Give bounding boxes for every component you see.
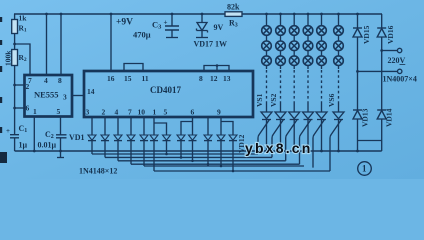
wire gate lead VS3 [286, 120, 298, 161]
wire gate lead VS1 [258, 120, 270, 155]
wire VD3 cathode drop to bus [117, 141, 119, 161]
wire VD13-VD14 bottom tie [358, 140, 382, 142]
lamp EL4b [303, 41, 313, 51]
wire column 2 top [280, 14, 282, 26]
svg-text:14: 14 [87, 87, 95, 96]
wire CD4017 outputs to diodes (straight drops) [91, 117, 93, 135]
wire to AC terminal 2 [358, 70, 398, 72]
lamp EL6c [334, 56, 344, 66]
thyristor VS5 [316, 112, 327, 119]
svg-text:3: 3 [86, 108, 90, 117]
node R2-pin2 junction [13, 84, 16, 87]
op-amp U1 NE555 [25, 75, 73, 117]
svg-text:+: + [6, 127, 10, 135]
wire thyristor VS4 cathode to ground rail [307, 120, 309, 152]
wire thyristor anode lead [293, 103, 295, 112]
svg-text:VD14: VD14 [385, 108, 394, 127]
IC U2 CD4017 [84, 71, 253, 117]
svg-text:7: 7 [128, 108, 132, 117]
wire to AC terminal 1 [382, 50, 398, 52]
svg-text:6: 6 [191, 108, 195, 117]
wire gate bus line 2 [105, 156, 272, 158]
svg-text:1N4148×12: 1N4148×12 [79, 167, 117, 176]
wire pin4 vertical [46, 14, 48, 75]
wire dashed continuation column 5 [321, 65, 323, 69]
node lamp column 6 top junction [337, 13, 340, 16]
svg-text:VS1: VS1 [255, 93, 264, 107]
wire [266, 35, 268, 42]
node pin1 ground dot [33, 150, 36, 153]
wire VD9 cathode drop to bus [192, 141, 194, 161]
wire [338, 35, 340, 42]
svg-text:CD4017: CD4017 [150, 85, 181, 95]
svg-text:VD1: VD1 [69, 133, 85, 142]
node VD15 top junction [356, 13, 359, 16]
wire gate bus line 3 [118, 160, 286, 162]
node lamp column 4 top junction [307, 13, 310, 16]
wire [280, 35, 282, 42]
wire column 3 top [293, 14, 295, 26]
diode VD12 (1N4148) [229, 135, 237, 140]
wire thyristor anode lead [307, 103, 309, 112]
svg-text:VD16: VD16 [386, 25, 395, 44]
wire VD15 anode down to AC node [357, 37, 359, 71]
node R2-pin6 junction [13, 107, 16, 110]
svg-text:1N4007×4: 1N4007×4 [383, 75, 417, 84]
wire pin7 tap [15, 44, 30, 75]
zener VD17 [201, 13, 204, 16]
svg-text:5: 5 [57, 107, 61, 116]
lamp EL4c [303, 56, 313, 66]
wire gate bus line 4 [131, 163, 300, 165]
wire [293, 35, 295, 42]
node lamp column 5 top junction [320, 13, 323, 16]
svg-text:470μ: 470μ [133, 30, 151, 40]
wire dashed continuation column 2 [280, 65, 282, 69]
resistor R1 [14, 14, 16, 44]
svg-text:8: 8 [199, 74, 203, 83]
lamp EL3a [289, 26, 299, 36]
lamp EL6b [334, 41, 344, 51]
resistor R2 [14, 44, 16, 50]
wire pin6 stub [15, 107, 25, 109]
lamp EL5c [317, 56, 327, 66]
wire VD13 column [357, 71, 359, 110]
svg-text:82k: 82k [227, 3, 240, 12]
wire [338, 50, 340, 56]
wire [307, 35, 309, 42]
node AC terminal 2 junction [356, 70, 359, 73]
terminal AC1 [397, 48, 401, 52]
svg-text:VD15: VD15 [362, 25, 371, 44]
diode VD6 (1N4148) [150, 135, 158, 140]
svg-text:4: 4 [44, 76, 48, 85]
lamp EL5a [317, 26, 327, 36]
wire pin16 supply [110, 14, 112, 71]
wire pin2 stub [15, 84, 25, 86]
lamp EL1c [262, 56, 272, 66]
thyristor VS1 [261, 112, 272, 119]
wire thyristor VS6 cathode to ground rail [338, 120, 340, 152]
lamp EL4a [303, 26, 313, 36]
svg-text:8: 8 [58, 76, 62, 85]
lamp EL3b [289, 41, 299, 51]
thyristor VS2 [275, 112, 286, 119]
capacitor C1 [10, 135, 19, 138]
svg-text:+9V: +9V [116, 18, 133, 28]
wire gate lead VS2 [272, 120, 284, 158]
diode VD7 (1N4148) [163, 135, 171, 140]
wire [321, 50, 323, 56]
wire thyristor VS5 cathode to ground rail [321, 120, 323, 152]
terminal AC2 [398, 69, 402, 73]
diode VD2 (1N4148) [101, 135, 109, 140]
svg-text:VD13: VD13 [361, 108, 370, 127]
diode VD16 [381, 14, 383, 28]
svg-text:15: 15 [124, 74, 132, 83]
wire dashed continuation column 3 [293, 65, 295, 69]
wire jumper pin1 to VD6 VD7 [154, 117, 167, 135]
wire column 6 top [338, 14, 340, 26]
svg-text:VS6: VS6 [327, 93, 336, 107]
wire VD10 cathode drop to bus [207, 141, 209, 165]
wire top rail right of R3 [242, 13, 382, 15]
wire gate lead VS6 [330, 120, 342, 172]
svg-text:4: 4 [115, 108, 119, 117]
diode VD8 (1N4148) [177, 135, 185, 140]
lamp EL5b [317, 41, 327, 51]
wire jumper pin6 to VD8 VD9 [181, 117, 193, 135]
node lamp column 2 top junction [279, 13, 282, 16]
wire thyristor anode lead [321, 103, 323, 112]
wire jumper pins 8-12-13 [204, 66, 229, 72]
diode VD9 (1N4148) [189, 135, 197, 140]
wire column 1 top [266, 14, 268, 26]
wire VD1 cathode drop to bus [91, 141, 93, 154]
svg-text:100k: 100k [4, 50, 13, 66]
wire thyristor anode lead [338, 103, 340, 112]
diode VD10 (1N4148) [204, 135, 212, 140]
lamp EL1b [262, 41, 272, 51]
lamp EL2c [276, 56, 286, 66]
diode VD5 (1N4148) [140, 135, 148, 140]
wire dashed continuation column 4 [307, 65, 309, 69]
svg-text:5: 5 [164, 108, 168, 117]
node AC terminal 1 junction [380, 49, 383, 52]
node R1-R2-pin7 junction [13, 43, 16, 46]
svg-text:2: 2 [102, 108, 106, 117]
wire VD8 cathode drop to bus [180, 141, 182, 158]
wire VD11 cathode drop to bus [220, 141, 222, 166]
wire gate bus line 6 [154, 170, 330, 172]
diode VD11 (1N4148) [217, 135, 225, 140]
node lamp column 3 top junction [293, 13, 296, 16]
wire VD16 anode down to AC node [381, 37, 383, 51]
wire VD6 cathode drop to bus [153, 141, 155, 171]
svg-text:9: 9 [217, 108, 221, 117]
wire VD5 cathode drop to bus [143, 141, 145, 166]
svg-text:9V: 9V [214, 23, 224, 32]
wire gate lead VS5 [313, 120, 325, 168]
node VD13 ground junction [356, 150, 359, 153]
wire gate bus line 1 [92, 153, 258, 155]
svg-text:220V: 220V [388, 56, 406, 65]
wire thyristor anode lead [266, 103, 268, 112]
wire VD12 cathode drop to bus [232, 141, 234, 171]
diode VD3 (1N4148) [114, 135, 122, 140]
diode VD13 [353, 110, 362, 119]
capacitor C3 [171, 13, 174, 16]
wire thyristor anode lead [280, 103, 282, 112]
wire VD14 column (crosses AC2 wire) [381, 51, 383, 111]
wire R2 bottom to C1 node [14, 66, 16, 135]
wire [280, 50, 282, 56]
wire pin1 to ground [33, 117, 35, 152]
capacitor C2 [56, 135, 67, 138]
svg-text:11: 11 [142, 74, 149, 83]
svg-text:12: 12 [210, 74, 218, 83]
svg-text:13: 13 [223, 74, 231, 83]
wire pin3 to pin14 [72, 95, 84, 97]
svg-text:10: 10 [138, 108, 146, 117]
diode VD15 [357, 14, 359, 28]
thyristor VS3 [289, 112, 300, 119]
wire jumper pin9 to VD11 VD12 [221, 117, 233, 135]
node lamp column 1 top junction [265, 13, 268, 16]
svg-text:VD17 1W: VD17 1W [194, 40, 228, 49]
wire gate bus line 5 [144, 165, 304, 167]
wire gate lead VS4 [300, 120, 312, 165]
wire column 5 top [321, 14, 323, 26]
diode VD1 (1N4148) [88, 135, 96, 140]
circled 1 [358, 162, 372, 176]
wire column 4 top [307, 14, 309, 26]
wire thyristor VS1 cathode to ground rail [266, 120, 268, 152]
svg-text:NE555: NE555 [34, 90, 59, 100]
lamp EL2b [276, 41, 286, 51]
svg-text:1: 1 [33, 107, 37, 116]
wire [307, 50, 309, 56]
svg-text:1k: 1k [19, 14, 28, 23]
svg-text:ybx8.cn: ybx8.cn [245, 140, 313, 156]
lamp EL6a [334, 26, 344, 36]
lamp EL1a [262, 26, 272, 36]
svg-text:3: 3 [63, 93, 67, 102]
wire bracket pins 15-11 [124, 64, 143, 72]
wire pin5 to C2 [60, 117, 62, 135]
svg-text:6: 6 [26, 104, 30, 113]
wire VD4 cathode drop to bus [130, 141, 132, 165]
svg-text:1μ: 1μ [19, 141, 28, 150]
thyristor VS6 [333, 112, 344, 119]
lamp EL3c [289, 56, 299, 66]
resistor R3 [225, 12, 242, 17]
svg-text:1: 1 [153, 108, 157, 117]
svg-text:+: + [164, 19, 168, 27]
svg-text:0.01μ: 0.01μ [38, 141, 57, 150]
wire [266, 50, 268, 56]
wire [293, 50, 295, 56]
svg-text:1: 1 [362, 164, 367, 174]
wire +9V top rail left of R3 [14, 13, 225, 15]
scan artifacts left edge (decorative) [0, 17, 7, 163]
wire thyristor VS3 cathode to ground rail [293, 120, 295, 152]
wire dashed continuation column 6 [338, 65, 340, 69]
wire VD2 cathode drop to bus [104, 141, 106, 158]
wire thyristor VS2 cathode to ground rail [280, 120, 282, 152]
diode VD4 (1N4148) [127, 135, 135, 140]
wire [321, 35, 323, 42]
svg-text:2: 2 [26, 82, 30, 91]
wire pin8 vertical [60, 14, 62, 75]
wire VD7 cathode drop to bus [166, 141, 168, 154]
svg-text:16: 16 [107, 74, 115, 83]
diode VD14 [377, 110, 386, 119]
thyristor VS4 [303, 112, 314, 119]
lamp EL2a [276, 26, 286, 36]
wire dashed continuation column 1 [266, 65, 268, 69]
svg-text:VS2: VS2 [269, 93, 278, 107]
ground rail [15, 150, 382, 152]
